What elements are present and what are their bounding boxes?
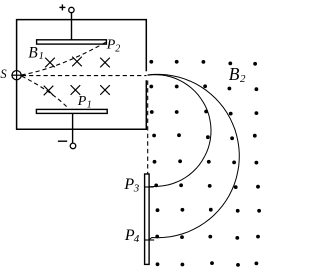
svg-text:3: 3 [133, 182, 140, 194]
svg-text:B: B [28, 45, 38, 62]
label B1 [28, 45, 44, 62]
svg-text:2: 2 [115, 44, 120, 55]
field B2 dots (out of page) [149, 60, 261, 267]
svg-text:2: 2 [240, 73, 246, 85]
dashed upward trajectory to P2 [22, 42, 106, 75]
svg-text:1: 1 [39, 51, 44, 62]
svg-text:4: 4 [134, 233, 140, 245]
bottom capacitor plate [36, 109, 107, 113]
cross mark x2 [72, 57, 82, 67]
cross mark x6 [100, 85, 110, 95]
svg-text:P: P [106, 38, 116, 53]
svg-text:P: P [77, 94, 87, 109]
cross mark x1 [45, 58, 55, 68]
svg-text:P: P [123, 176, 134, 193]
label B2 [229, 64, 246, 85]
- terminal circle [70, 143, 76, 149]
field B1 cross marks (into page) [44, 57, 110, 96]
dashed vertical line from beam exit to plate top [147, 81, 149, 174]
+ terminal label [59, 4, 65, 10]
label P1 [77, 94, 92, 111]
cross mark x5 [71, 85, 81, 95]
label P4 [124, 227, 140, 245]
label P2 [106, 38, 121, 55]
P3 landing tick [144, 186, 154, 188]
+ terminal circle [69, 7, 74, 12]
cross mark x3 [100, 58, 110, 68]
svg-text:S: S [0, 67, 7, 81]
cross mark x4 [44, 86, 54, 96]
- terminal label [58, 140, 67, 142]
wire from bottom plate to - terminal [72, 114, 74, 144]
outer semicircular trajectory to P4 [148, 74, 240, 239]
P4 landing tick [144, 239, 154, 241]
dashed downward trajectory to P1 [22, 76, 68, 107]
wire from + terminal to top plate [71, 13, 73, 40]
source S symbol (circle with cross on left wall) [11, 70, 22, 81]
right detection plate [145, 174, 150, 264]
inner semicircular trajectory to P3 [148, 75, 212, 187]
deflection chamber box (with gap in right wall at beam exit) [17, 20, 147, 130]
dashed axis line from S to field region [22, 75, 147, 77]
top capacitor plate [37, 40, 107, 44]
svg-text:B: B [229, 64, 240, 84]
label P3 [123, 176, 139, 195]
